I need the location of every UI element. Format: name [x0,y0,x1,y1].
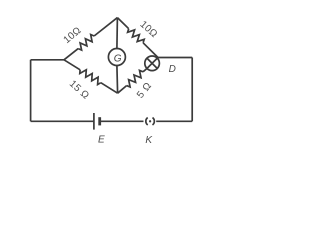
svg-text:5 Ω: 5 Ω [135,80,154,100]
svg-text:15 Ω: 15 Ω [67,78,91,101]
svg-text:10Ω: 10Ω [137,19,159,40]
galvanometer G [108,49,125,66]
svg-text:D: D [169,64,176,75]
wire: G to bottom vertex [116,66,119,94]
wire: bottom left to battery [31,120,94,122]
resistor R1 (10 ohm, top-left arm) [64,18,117,60]
svg-text:G: G [114,54,122,65]
resistor R3 (15 ohm, bottom-left arm) [64,60,118,93]
wire: galvanometer branch, top vertex to G [116,18,119,49]
wire: right edge vertical [191,58,193,122]
svg-text:E: E [98,135,105,146]
wire: top right horizontal to lamp junction [158,57,192,59]
lamp D (bulb with cross) [145,56,160,71]
battery E [94,113,100,130]
wire: key to bottom right corner [156,120,192,122]
resistor R4 (5 ohm, bottom-right arm) [118,69,147,94]
wire: left vertex to left edge [31,59,64,61]
wire: battery to key [100,120,144,122]
resistor R2 (10 ohm, top-right arm) [117,18,158,58]
svg-text:K: K [145,135,153,146]
key K (tap key) [146,118,155,125]
wire: left edge vertical [30,60,32,122]
